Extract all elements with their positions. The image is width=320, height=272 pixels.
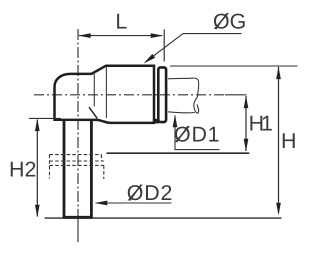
ØG leader [146, 34, 184, 62]
tube break teardrop [194, 95, 199, 113]
svg-text:H: H [281, 129, 296, 153]
svg-text:ØD2: ØD2 [127, 181, 173, 205]
cone boundary line right [105, 67, 107, 119]
H dimension line [278, 67, 280, 213]
svg-text:L: L [115, 9, 127, 33]
L extension line right [163, 30, 165, 62]
H bottom extension line [45, 217, 282, 219]
H top extension line [170, 65, 298, 67]
OD1 slash extension [177, 126, 188, 142]
ØG underline [183, 33, 242, 35]
H1 dimension line [245, 96, 247, 151]
svg-text:ØG: ØG [213, 10, 246, 34]
H1 bottom extension line [107, 152, 250, 154]
body corner diagonal [89, 107, 97, 118]
H1 arrow up [244, 96, 249, 109]
svg-text:ØD1: ØD1 [174, 122, 220, 146]
stem right edge [90, 121, 93, 217]
H2 arrow up [35, 119, 40, 132]
cone boundary line left [93, 72, 95, 107]
release ring (collet) [158, 67, 166, 122]
ØD1 arrow up [173, 115, 178, 128]
dimension L line [79, 35, 162, 37]
ØD2 leader [96, 202, 172, 204]
OG slash extension [216, 13, 227, 29]
svg-text:H2: H2 [9, 157, 36, 181]
ØD1 underline [175, 149, 220, 151]
ØD2 arrow left [95, 201, 108, 206]
H2 top extension line [29, 117, 61, 119]
hex nut hidden (dashed) top [50, 154, 102, 156]
OD2 slash extension [130, 185, 141, 201]
centerline below stem [77, 219, 79, 242]
elbow body and cartridge outline [55, 66, 155, 123]
H1 arrow down [244, 139, 249, 152]
centerline horizontal (tube axis) [34, 94, 225, 96]
hex nut dashed right side long [103, 165, 105, 179]
centerline vertical (stem axis) [77, 29, 79, 219]
centerline right solid end [225, 94, 247, 96]
hex nut dashed right side short [101, 155, 103, 161]
ØG arrowhead [144, 54, 155, 63]
tube bottom edge [168, 111, 195, 114]
stem bottom edge [63, 216, 93, 219]
L arrow left [78, 33, 91, 38]
hex nut dashed left side [49, 155, 51, 179]
H2 dimension line [36, 120, 38, 217]
stem (tail) left edge [63, 121, 66, 217]
H2 arrow down [35, 205, 40, 218]
H arrow up [276, 67, 281, 80]
hex nut dashed mid1 [50, 160, 104, 162]
svg-text:H1: H1 [249, 111, 272, 135]
collet washer bottom bridge [154, 119, 159, 124]
H arrow down [276, 203, 281, 216]
tube top edge [168, 78, 199, 95]
hex nut dashed mid2 [50, 164, 104, 166]
L arrow right [151, 33, 164, 38]
ØD1 leader vertical [174, 116, 176, 150]
